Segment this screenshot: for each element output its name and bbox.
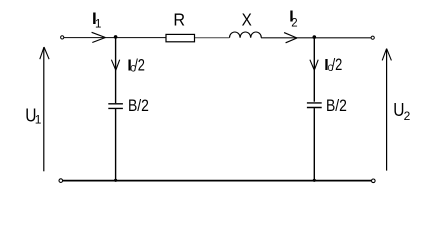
wire bottom (63, 180, 372, 182)
node junction bottom-left (114, 179, 117, 182)
arrow I2 on top wire (284, 33, 297, 43)
node junction top-right (313, 35, 317, 39)
svg-text:R: R (173, 10, 185, 30)
label I2 (289, 9, 297, 30)
inductor X (230, 32, 262, 38)
terminal bottom-right (372, 179, 376, 183)
wire coil to right terminal (261, 37, 371, 39)
terminal top-left (61, 36, 64, 39)
svg-text:B/2: B/2 (128, 97, 149, 116)
capacitor B/2 left (108, 104, 123, 109)
label B/2 right (326, 97, 347, 116)
node junction top-left (114, 35, 118, 39)
wire left shunt branch upper (115, 38, 117, 104)
arrow Ic/2 left branch (111, 60, 119, 70)
svg-text:/2: /2 (332, 56, 343, 74)
arrow Ic/2 right branch (310, 60, 318, 70)
node junction bottom-right (313, 179, 316, 182)
wire right shunt branch lower (313, 108, 315, 181)
svg-text:X: X (242, 9, 252, 29)
terminal bottom-left (59, 179, 63, 183)
label Ic/2 left (127, 57, 145, 75)
svg-text:1: 1 (95, 19, 101, 31)
capacitor B/2 right (307, 103, 322, 108)
wire left shunt branch lower (115, 109, 117, 181)
wire right shunt branch upper (313, 38, 315, 102)
arrow U1 (left voltage) (43, 48, 45, 172)
arrow I1 on top wire (92, 32, 106, 42)
svg-text:B/2: B/2 (326, 97, 347, 116)
svg-text:/2: /2 (134, 57, 145, 75)
label X (242, 9, 252, 29)
svg-text:2: 2 (291, 18, 297, 30)
terminal top-right (371, 36, 374, 39)
label B/2 left (128, 97, 149, 116)
wire top left segment (64, 37, 166, 39)
resistor R (166, 34, 195, 41)
wire between resistor and coil (195, 37, 230, 39)
label U2 (393, 100, 410, 123)
label U1 (25, 105, 41, 126)
svg-text:2: 2 (404, 109, 411, 123)
label Ic/2 right (324, 56, 342, 74)
svg-text:1: 1 (35, 113, 42, 127)
arrow U2 (right voltage) (386, 49, 388, 171)
label I1 (92, 9, 101, 31)
label R (173, 10, 185, 30)
